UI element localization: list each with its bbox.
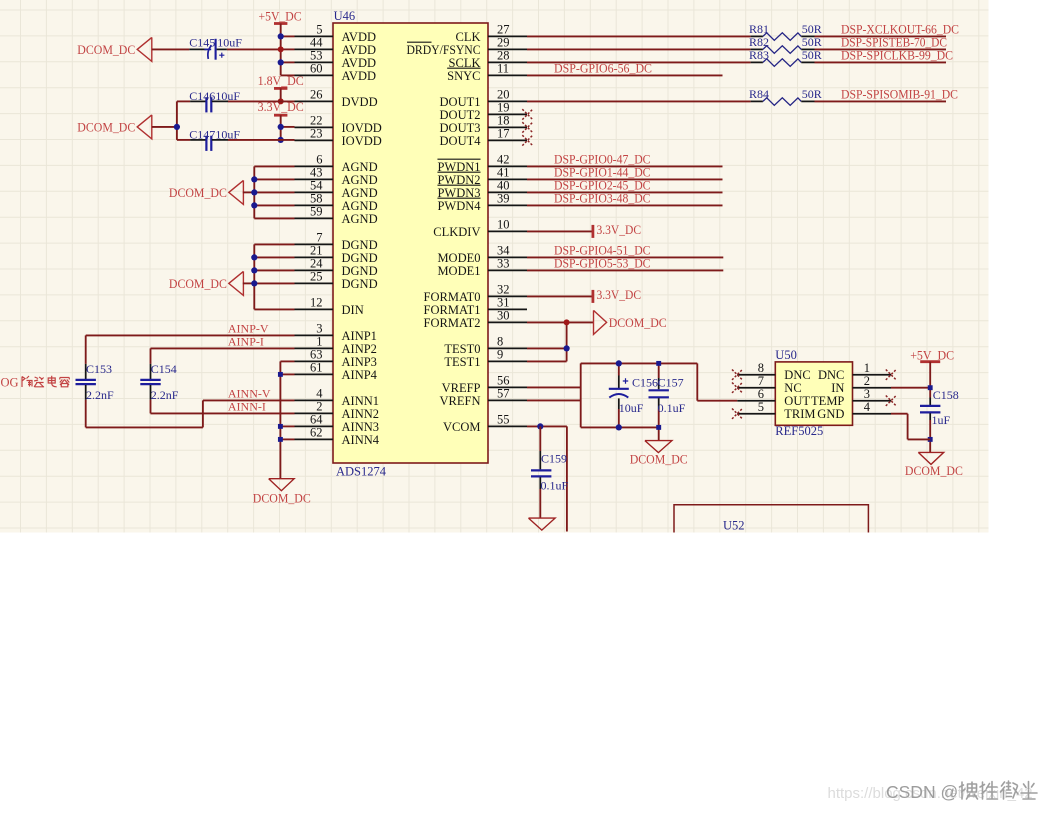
svg-text:18: 18 [497,114,510,128]
svg-text:AVDD: AVDD [342,69,377,83]
svg-text:VREFP: VREFP [442,381,481,395]
svg-text:DNC: DNC [818,368,844,382]
svg-text:TRIM: TRIM [784,407,815,421]
svg-text:44: 44 [310,36,323,50]
svg-text:FORMAT1: FORMAT1 [424,303,481,317]
svg-text:TEMP: TEMP [811,394,844,408]
svg-text:AVDD: AVDD [342,30,377,44]
svg-text:11: 11 [497,62,509,76]
svg-text:AINP4: AINP4 [342,368,378,382]
svg-text:61: 61 [310,361,323,375]
svg-text:FORMAT2: FORMAT2 [424,316,481,330]
svg-text:56: 56 [497,374,510,388]
svg-text:AINP1: AINP1 [342,329,377,343]
svg-text:2.2nF: 2.2nF [86,388,114,402]
svg-text:12: 12 [310,296,323,310]
svg-text:33: 33 [497,257,510,271]
svg-text:41: 41 [497,166,510,180]
svg-text:9: 9 [497,348,503,362]
svg-text:MODE1: MODE1 [437,264,480,278]
svg-text:43: 43 [310,166,323,180]
svg-text:CLK: CLK [456,30,481,44]
svg-text:27: 27 [497,23,510,37]
svg-text:DOUT1: DOUT1 [440,95,481,109]
svg-text:63: 63 [310,348,323,362]
svg-text:ADS1274: ADS1274 [336,465,387,479]
svg-text:+5V_DC: +5V_DC [910,347,954,362]
svg-text:3.3V_DC: 3.3V_DC [597,222,642,237]
svg-text:7: 7 [758,374,764,388]
svg-text:DCOM_DC: DCOM_DC [905,463,963,478]
svg-text:AINN-V: AINN-V [228,386,271,400]
svg-text:54: 54 [310,179,323,193]
svg-text:60: 60 [310,62,323,76]
svg-text:50R: 50R [802,48,822,62]
svg-text:5: 5 [758,400,764,414]
svg-text:DRDY/FSYNC: DRDY/FSYNC [407,43,481,57]
svg-text:DSP-GPIO5-53_DC: DSP-GPIO5-53_DC [554,255,651,270]
svg-text:GND: GND [817,407,844,421]
svg-text:C146: C146 [189,89,215,103]
svg-text:22: 22 [310,114,323,128]
svg-text:DCOM_DC: DCOM_DC [609,315,667,330]
svg-text:10uF: 10uF [215,89,240,103]
svg-text:C157: C157 [658,375,684,389]
svg-text:AINP-I: AINP-I [228,334,264,348]
svg-text:AINP3: AINP3 [342,355,377,369]
svg-text:MODE0: MODE0 [437,251,480,265]
svg-text:25: 25 [310,270,323,284]
svg-text:AGND: AGND [342,199,378,213]
svg-text:DOUT3: DOUT3 [440,121,481,135]
svg-text:42: 42 [497,153,510,167]
svg-text:DCOM_DC: DCOM_DC [630,451,688,466]
svg-text:AINN3: AINN3 [342,420,380,434]
svg-text:50R: 50R [802,22,822,36]
svg-text:DSP-GPIO3-48_DC: DSP-GPIO3-48_DC [554,190,651,205]
svg-text:DVDD: DVDD [342,95,378,109]
svg-text:DGND: DGND [342,264,378,278]
svg-text:32: 32 [497,283,510,297]
svg-text:26: 26 [310,88,323,102]
svg-text:34: 34 [497,244,510,258]
svg-text:10uF: 10uF [215,128,240,142]
svg-text:CSDN @: CSDN @ [886,782,958,802]
svg-text:R82: R82 [749,35,769,49]
svg-text:10uF: 10uF [619,401,644,415]
svg-text:C153: C153 [86,362,112,376]
svg-text:VREFN: VREFN [440,394,481,408]
svg-text:AGND: AGND [342,160,378,174]
svg-text:3.3V_DC: 3.3V_DC [597,287,642,302]
svg-text:AINN4: AINN4 [342,433,380,447]
svg-text:DSP-SPICLKB-99_DC: DSP-SPICLKB-99_DC [841,47,953,62]
svg-text:2: 2 [864,374,870,388]
svg-text:53: 53 [310,49,323,63]
svg-text:DGND: DGND [342,251,378,265]
svg-text:7: 7 [316,231,322,245]
svg-text:59: 59 [310,205,323,219]
svg-text:TEST1: TEST1 [444,355,480,369]
svg-text:DNC: DNC [784,368,810,382]
svg-text:29: 29 [497,36,510,50]
svg-text:AINP2: AINP2 [342,342,377,356]
svg-text:OUT: OUT [784,394,810,408]
svg-text:64: 64 [310,413,323,427]
svg-text:3: 3 [864,387,870,401]
svg-text:PWDN4: PWDN4 [437,199,481,213]
svg-text:31: 31 [497,296,510,310]
svg-text:DCOM_DC: DCOM_DC [77,120,135,135]
svg-text:C156: C156 [632,375,658,389]
svg-text:DIN: DIN [342,303,364,317]
svg-text:0.1uF: 0.1uF [541,478,569,492]
svg-text:4: 4 [864,400,871,414]
svg-text:5: 5 [316,23,322,37]
svg-text:57: 57 [497,387,510,401]
svg-text:10: 10 [497,218,510,232]
svg-text:AINN1: AINN1 [342,394,380,408]
svg-text:DOUT2: DOUT2 [440,108,481,122]
svg-text:AINN-I: AINN-I [228,399,266,413]
svg-text:6: 6 [316,153,322,167]
svg-text:R81: R81 [749,22,769,36]
svg-text:R83: R83 [749,48,769,62]
svg-text:DGND: DGND [342,238,378,252]
svg-text:AINP-V: AINP-V [228,321,269,335]
svg-text:20: 20 [497,88,510,102]
svg-text:0.1uF: 0.1uF [658,401,686,415]
svg-text:C147: C147 [189,128,215,142]
svg-text:50R: 50R [802,87,822,101]
svg-text:1.8V_DC: 1.8V_DC [258,73,304,88]
svg-text:8: 8 [758,361,764,375]
svg-text:U52: U52 [723,519,745,533]
svg-text:+5V_DC: +5V_DC [259,8,302,23]
svg-text:DSP-GPIO6-56_DC: DSP-GPIO6-56_DC [554,60,652,75]
svg-text:6: 6 [758,387,764,401]
svg-text:3: 3 [316,322,322,336]
svg-text:10uF: 10uF [217,35,242,49]
svg-text:2: 2 [316,400,322,414]
svg-text:8: 8 [497,335,503,349]
svg-text:IN: IN [831,381,844,395]
svg-text:NC: NC [784,381,801,395]
svg-text:SNYC: SNYC [447,69,480,83]
svg-text:1: 1 [864,361,870,375]
svg-text:OG: OG [1,376,19,390]
svg-text:DCOM_DC: DCOM_DC [169,276,227,291]
svg-text:23: 23 [310,127,323,141]
svg-text:AVDD: AVDD [342,43,377,57]
svg-text:AGND: AGND [342,186,378,200]
svg-text:DCOM_DC: DCOM_DC [169,185,227,200]
svg-text:TEST0: TEST0 [444,342,480,356]
svg-text:DGND: DGND [342,277,378,291]
svg-text:AVDD: AVDD [342,56,377,70]
svg-text:28: 28 [497,49,510,63]
svg-text:AGND: AGND [342,212,378,226]
svg-text:REF5025: REF5025 [775,424,823,438]
svg-text:IOVDD: IOVDD [342,121,382,135]
svg-text:58: 58 [310,192,323,206]
svg-text:19: 19 [497,101,510,115]
svg-text:1uF: 1uF [932,413,951,427]
svg-text:40: 40 [497,179,510,193]
svg-text:FORMAT0: FORMAT0 [424,290,481,304]
svg-text:1: 1 [316,335,322,349]
svg-text:55: 55 [497,413,510,427]
svg-text:U46: U46 [334,9,356,23]
svg-text:DCOM_DC: DCOM_DC [77,42,135,57]
svg-text:21: 21 [310,244,323,258]
svg-text:39: 39 [497,192,510,206]
svg-text:4: 4 [316,387,323,401]
svg-text:C159: C159 [541,451,567,465]
svg-text:IOVDD: IOVDD [342,134,382,148]
svg-text:DOUT4: DOUT4 [440,134,482,148]
svg-text:AINN2: AINN2 [342,407,380,421]
svg-text:62: 62 [310,426,323,440]
svg-text:R84: R84 [749,87,769,101]
svg-text:30: 30 [497,309,510,323]
svg-text:17: 17 [497,127,510,141]
svg-text:50R: 50R [802,35,822,49]
svg-text:2.2nF: 2.2nF [151,388,179,402]
svg-text:DSP-SPISOMIB-91_DC: DSP-SPISOMIB-91_DC [841,86,958,101]
svg-text:C154: C154 [151,362,177,376]
svg-text:C158: C158 [933,388,959,402]
svg-text:24: 24 [310,257,323,271]
svg-text:C145: C145 [189,35,215,49]
svg-text:AGND: AGND [342,173,378,187]
svg-text:VCOM: VCOM [443,420,481,434]
svg-text:CLKDIV: CLKDIV [433,225,480,239]
svg-text:DCOM_DC: DCOM_DC [253,490,311,505]
svg-text:U50: U50 [775,348,797,362]
